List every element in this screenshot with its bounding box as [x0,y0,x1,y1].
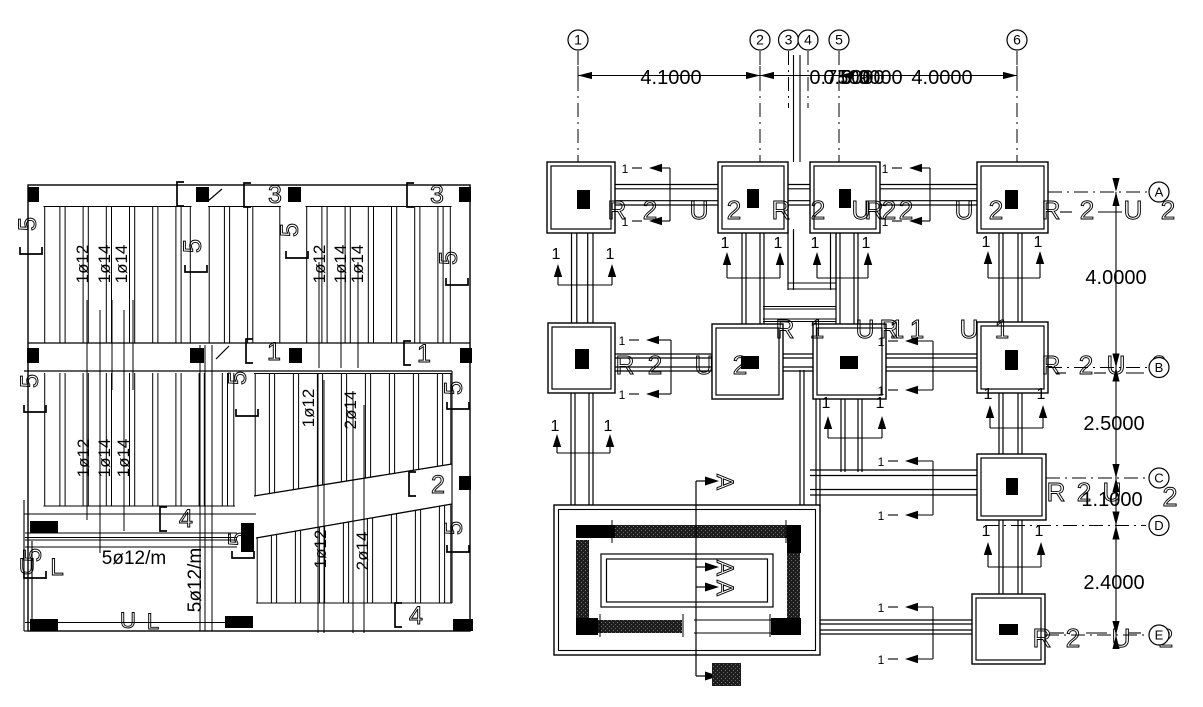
svg-text:R: R [1047,477,1066,507]
beam label 2 a4 row A [882,195,896,225]
top dimension line [578,66,1017,85]
bar label 1o12 P6 [311,530,330,569]
beam arrows A1-A2 [622,162,670,229]
footing A2 [718,162,788,233]
svg-text:2: 2 [1079,350,1093,380]
dim text 2.4000 [1083,572,1144,594]
section mark 1 left [246,338,281,366]
svg-text:1ø14: 1ø14 [348,245,367,284]
dim text 1.1000 [1081,489,1142,511]
row line B [1048,367,1147,369]
tank inner rect [601,554,773,607]
column bottom row [30,616,473,631]
stair right corridor edge [451,371,453,603]
beam label U d1 row C [1103,477,1122,507]
stair edge column [459,476,471,490]
footing C6 [977,454,1046,520]
svg-text:5: 5 [224,532,252,546]
beam label 2 a5 row A [899,195,913,225]
svg-text:1: 1 [604,418,613,435]
tie beam C row [810,470,981,495]
section mark 3 right [407,181,444,209]
section mark 1 right [404,340,431,368]
beam label 2 a3 row A [811,195,825,225]
svg-text:3: 3 [268,181,282,209]
svg-text:2: 2 [899,195,913,225]
svg-text:R: R [608,195,627,225]
tie beam A1-A2 [611,185,722,206]
beam arrows B1-B2 [619,334,671,402]
svg-text:1: 1 [878,653,885,667]
svg-text:2: 2 [811,195,825,225]
svg-text:1: 1 [606,246,615,263]
beam label 1 b3 row B upper [910,314,924,344]
bar label 1o14 P1a [95,245,114,284]
svg-text:D: D [1154,518,1163,533]
section mark 5 d [435,251,468,285]
beam label U b1 row B upper [856,314,875,344]
bar arrows under A3 [811,235,873,278]
bar label 1o14 P4a [95,439,114,478]
tie beam A2-B2 [742,229,764,328]
tie beam E row [818,620,976,634]
section label A top [711,474,738,490]
svg-text:1ø14: 1ø14 [95,439,114,478]
svg-text:5: 5 [835,32,843,48]
label L [50,554,63,581]
svg-text:1: 1 [1034,234,1043,251]
svg-text:1ø14: 1ø14 [114,439,133,478]
svg-text:3: 3 [430,181,444,209]
row bubble B [1149,358,1169,378]
dim text 4.0000 top [911,67,972,89]
beam arrows A3-A6 [882,162,930,229]
svg-text:5: 5 [224,371,252,385]
svg-text:1: 1 [810,314,824,344]
tie beam A1-B1 [572,229,594,327]
svg-text:1: 1 [552,246,561,263]
svg-text:U: U [960,314,979,344]
svg-text:U: U [19,554,35,579]
tie beam A3-B3 [836,229,858,328]
svg-text:1ø12: 1ø12 [311,530,330,569]
svg-text:6: 6 [1013,32,1021,48]
tie beam H-link [763,307,836,322]
svg-text:3: 3 [785,32,793,48]
row line A [1048,191,1149,193]
section mark 5 i [19,548,47,578]
footing B6 [977,322,1048,393]
tank outer walls [554,505,820,655]
svg-text:2: 2 [727,195,741,225]
bar label 1o12 P4 [74,439,93,478]
svg-text:U: U [955,195,974,225]
beam label U a2 row A [852,195,871,225]
grid line 6 [1016,51,1018,162]
dim text 0.5000 [823,67,884,89]
svg-text:2ø14: 2ø14 [341,391,360,430]
beam label 2 c3 row B [1079,350,1093,380]
svg-text:5ø12/m: 5ø12/m [102,548,166,569]
column mid row [27,348,472,363]
beam label 2 overlap row C [1162,482,1177,512]
leader lines 5o12 [200,345,212,631]
bar arrows under A2 [721,235,785,278]
svg-text:1: 1 [417,340,431,368]
svg-text:U: U [856,314,875,344]
section target square [712,663,741,686]
svg-text:4.0000: 4.0000 [1085,267,1146,289]
beam label U e1 row E [1112,623,1131,653]
footing A3 [810,162,880,233]
tank wall hatch bottom [598,620,771,633]
tank wall hatch right [771,525,801,635]
beam label dash row A [1060,211,1122,213]
section mark top extra [177,182,184,206]
svg-text:5ø12/m: 5ø12/m [185,548,206,612]
svg-text:R: R [1042,195,1061,225]
svg-text:R: R [776,314,795,344]
dim text 4.1000 [640,67,701,89]
footing A1 [547,162,615,233]
footing B2 [712,324,783,399]
label 5o12m vertical [185,548,206,612]
bar label 1o12 P3 [310,245,329,284]
row line D [985,525,1146,527]
section mark 2 [409,471,445,499]
grid bubble 2 [750,30,770,50]
svg-text:U: U [120,608,136,633]
svg-text:1: 1 [574,32,582,48]
bar label 1o14 P4b [114,439,133,478]
svg-text:5: 5 [14,217,42,231]
label U left [19,554,35,579]
dim text 4.0000 [1085,267,1146,289]
svg-text:A: A [711,560,738,576]
beam label R e1 row E [1033,623,1052,653]
svg-text:2: 2 [733,350,747,380]
svg-text:2: 2 [1080,195,1094,225]
beam label 2 c4 row B [1152,350,1166,380]
beam label U b2 row B upper [960,314,979,344]
svg-text:1: 1 [619,388,626,402]
tie beam B2-B3 [779,354,817,371]
beam label dash row B [1056,372,1144,374]
bar arrows under B1 [551,418,615,453]
hatch panel P4 [44,373,236,506]
svg-text:4.0000: 4.0000 [911,67,972,89]
beam label 1 b2 row B upper [890,314,904,344]
svg-text:5: 5 [179,239,207,253]
row bubble C [1149,468,1169,488]
svg-text:2: 2 [989,195,1003,225]
svg-text:2: 2 [1066,623,1080,653]
dim text 0.7500 [809,67,870,89]
svg-text:E: E [1155,628,1164,643]
beam label U c1 row B [695,350,714,380]
grid line 5 [838,51,840,162]
beam label 2 a1 row A [643,195,657,225]
section label A mid1 [711,560,738,576]
beam label R d1 row C [1047,477,1066,507]
leader lines P3 [319,262,358,368]
grid bubble 1 [568,30,588,50]
column top row [28,187,471,202]
tank wall hatch left [576,540,598,635]
tie beam B6-C6 [999,389,1022,458]
svg-text:4: 4 [179,505,193,533]
svg-text:1: 1 [774,235,783,252]
right dimension line [1112,178,1119,649]
svg-text:2: 2 [756,32,764,48]
bar label 1o14 P1b [112,245,131,284]
bar arrows under C6 [982,523,1046,567]
left room lines [24,514,256,623]
svg-text:5: 5 [440,521,468,535]
svg-text:1: 1 [862,235,871,252]
tie beam B3-B6 [882,354,981,371]
beam label dash row E [1050,632,1141,634]
svg-text:R: R [1033,623,1052,653]
svg-text:U: U [1124,195,1143,225]
svg-text:R: R [772,195,791,225]
row bubble A [1149,182,1169,202]
svg-text:1: 1 [721,235,730,252]
slab plan outer boundary [24,185,470,631]
svg-text:1: 1 [1037,386,1046,403]
svg-text:1ø12: 1ø12 [299,389,318,428]
svg-text:A: A [711,474,738,490]
svg-text:1: 1 [267,338,281,366]
section mark 5 e [16,374,46,412]
beam label U a4 row A [1124,195,1143,225]
bar label 1o14 P3b [348,245,367,284]
beam label 2 a8 row A [1161,195,1175,225]
label 5o12m horizontal [102,548,166,569]
tie beam mid-tank [800,370,820,507]
beam label 2 e1 row E [1066,623,1080,653]
svg-text:2: 2 [431,471,445,499]
beam label U a1 row A [690,195,709,225]
svg-text:L: L [50,554,63,581]
svg-text:2ø14: 2ø14 [353,532,372,571]
beam label R a2 row A [772,195,791,225]
svg-text:2: 2 [648,350,662,380]
beam label R c1 row B [616,350,635,380]
svg-text:1: 1 [878,455,885,469]
beam label 1 b1 row B upper [810,314,824,344]
svg-text:1: 1 [878,509,885,523]
svg-text:1: 1 [811,235,820,252]
beam label U c2 row B [1107,350,1126,380]
bar arrows under A6 [982,234,1045,278]
leader lines stair [318,373,364,633]
section mark 4 left [160,505,193,533]
svg-text:A: A [711,580,738,596]
svg-text:1ø12: 1ø12 [74,439,93,478]
svg-text:1: 1 [890,314,904,344]
svg-text:2: 2 [882,195,896,225]
tick slash mid [216,346,229,359]
grid bubble 3 [779,30,799,50]
row line C [1046,477,1146,479]
tie beam C6-E6 [999,516,1022,598]
grid bubble 4 [798,30,818,50]
svg-text:4: 4 [409,602,423,630]
svg-text:C: C [1154,471,1163,486]
stair landing column [30,521,254,552]
beam label 2 e2 row E [1159,623,1173,653]
svg-text:1ø12: 1ø12 [73,245,92,284]
section mark 5 b [179,239,207,272]
svg-text:L: L [147,609,159,634]
svg-text:1: 1 [619,334,626,348]
grid line 3 [788,51,790,108]
tank wall hatch top [576,525,789,538]
hatch panel P1 [44,207,192,344]
tie beam A3-A6 [876,185,981,206]
bar label 1o12 P5 [299,389,318,428]
section mark 5 j [224,532,254,558]
tie beam loop A2-A3 [788,229,836,290]
svg-text:1: 1 [910,314,924,344]
bar label 1o12 P1 [73,245,92,284]
beam label R a3 row A [865,195,884,225]
svg-text:1ø14: 1ø14 [112,245,131,284]
dim text 0.9000 [841,67,902,89]
grid riser lines 3-4 [794,55,801,162]
beam arrows E row [878,601,933,667]
svg-text:A: A [1155,185,1164,200]
beam label U a3 row A [955,195,974,225]
stair upper flight P5 [254,374,452,497]
section label A mid2 [711,580,738,596]
svg-text:1.1000: 1.1000 [1081,489,1142,511]
footing B1 [548,323,615,393]
section mark 5 c [276,223,308,258]
beam label R a1 row A [608,195,627,225]
svg-text:1: 1 [622,162,629,176]
svg-text:5: 5 [276,223,304,237]
bar label 2o14 P5 [341,391,360,430]
svg-text:R: R [865,195,884,225]
bar label 2o14 P6 [353,532,372,571]
beam arrows B3-B6 [878,335,933,398]
svg-text:2.4000: 2.4000 [1083,572,1144,594]
section mark 5 a [14,217,42,254]
svg-text:B: B [1155,360,1164,375]
svg-text:R: R [616,350,635,380]
section mark 3 left [244,181,282,209]
grid bubble 6 [1007,30,1027,50]
svg-text:5: 5 [16,374,44,388]
svg-text:4: 4 [804,32,812,48]
bar arrows under B6 [984,386,1048,428]
svg-text:4.1000: 4.1000 [640,67,701,89]
section mark 5 h [440,521,469,552]
svg-text:R: R [1042,350,1061,380]
bar arrows under B3 [822,395,887,438]
svg-text:U: U [690,195,709,225]
bar label 1o14 P3a [331,245,350,284]
grid line 4 [807,51,809,108]
svg-text:1: 1 [982,234,991,251]
tie beam B3-C [841,395,862,472]
footing B3 [813,324,886,399]
grid bubble 5 [829,30,849,50]
row line E [1045,634,1146,636]
row bubble D [1149,516,1169,536]
bar arrows under A1 [552,246,617,285]
mid band beam lines [24,343,470,371]
section mark 4 bottom [395,602,423,630]
svg-text:1ø12: 1ø12 [310,245,329,284]
stair lower flight P6 [256,504,452,603]
tie beam B1-B2 [611,354,716,371]
beam label R c2 row B [1042,350,1061,380]
beam label 1 b4 row B upper [995,314,1009,344]
svg-text:1: 1 [822,395,831,412]
beam arrows C row [878,455,933,523]
svg-text:2: 2 [643,195,657,225]
hatch panel P2 [208,207,281,344]
dim text 2.5000 [1083,413,1144,435]
svg-text:1: 1 [984,386,993,403]
section line A-A [696,477,719,681]
svg-text:1: 1 [878,384,885,398]
beam label R a4 row A [1042,195,1061,225]
row bubble E [1149,625,1169,645]
beam label 2 a2 row A [727,195,741,225]
section mark 5 f [224,371,258,416]
svg-text:5: 5 [435,251,463,265]
svg-text:1: 1 [551,418,560,435]
tie beam A2-A3 [784,185,814,206]
tie beam B1-tank [571,390,593,524]
svg-text:1: 1 [882,162,889,176]
beam label R b1 row B upper [776,314,795,344]
hatch panel P3 [306,207,452,344]
grid line 1 [577,51,579,162]
footing E6 [972,594,1045,664]
beam label 2 d1 row C [1077,477,1091,507]
footing A6 [977,162,1048,233]
svg-text:0.9000: 0.9000 [841,67,902,89]
beam label 2 a7 row A [1080,195,1094,225]
svg-text:1: 1 [995,314,1009,344]
tick slash top [208,189,222,201]
label U L bottom [120,608,159,634]
svg-text:U: U [695,350,714,380]
leader lines P1 [87,300,133,553]
svg-text:2.5000: 2.5000 [1083,413,1144,435]
section mark 5 g [440,381,469,409]
beam label 2 c1 row B [648,350,662,380]
grid line 2 [759,51,761,162]
beam label 2 c2 row B [733,350,747,380]
tie beam A6-B6 [999,229,1022,326]
beam label R b2 row B upper [880,314,899,344]
beam label 2 a6 row A [989,195,1003,225]
tank wall tick marks [576,520,786,637]
svg-text:1: 1 [878,601,885,615]
svg-text:5: 5 [440,381,468,395]
